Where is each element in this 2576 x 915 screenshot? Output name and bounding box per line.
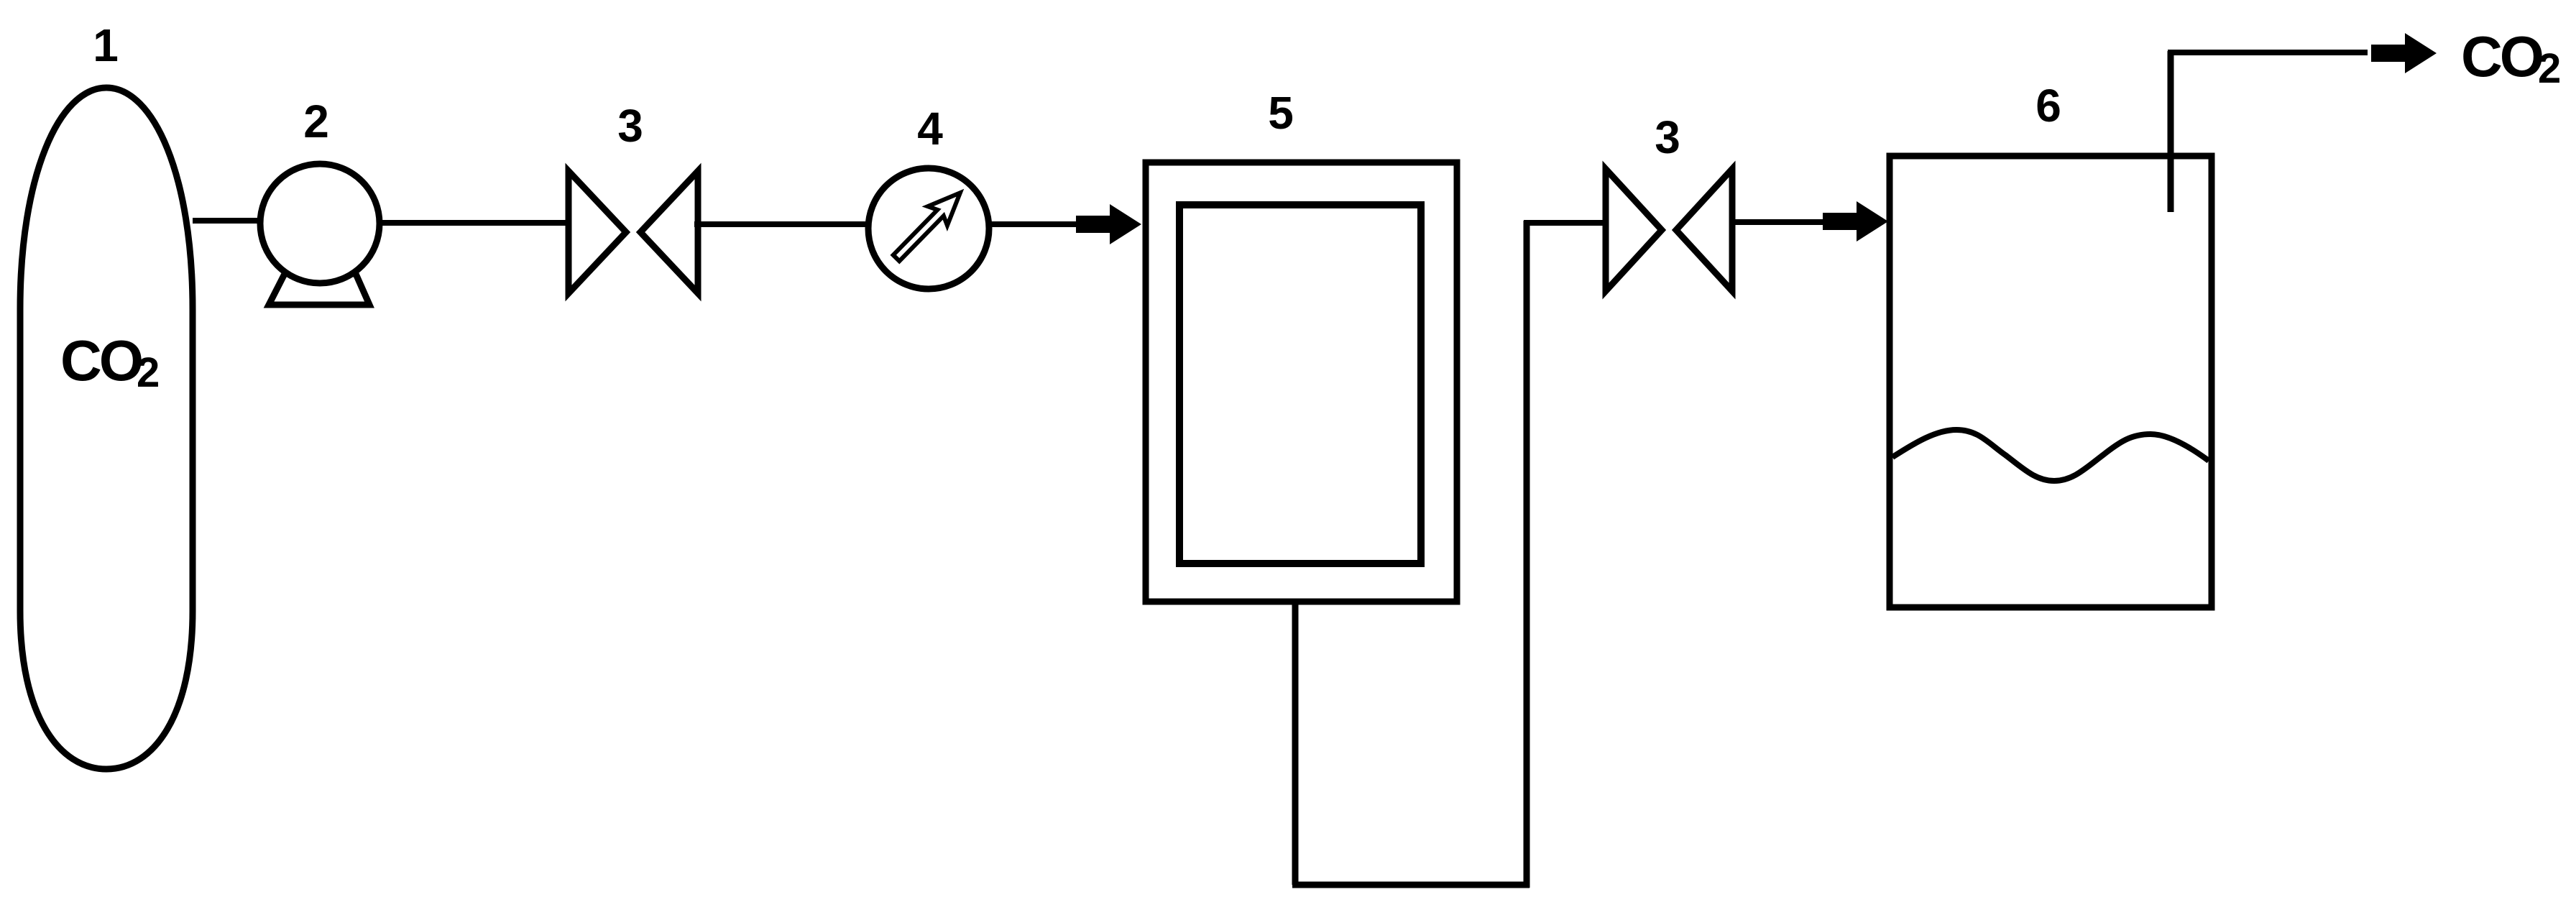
separator 6 rectangle [1890,156,2212,607]
flow arrow into vessel 5 [1076,204,1141,244]
svg-text:4: 4 [917,103,943,155]
pipe from vessel 5 bottom down [1292,604,1299,885]
svg-text:CO: CO [2461,24,2542,88]
valve 3b right triangle [1676,169,1732,291]
vessel 5 outer rectangle [1146,162,1457,602]
pressure gauge 4 needle [886,183,970,267]
pressure gauge 4 circle [868,168,989,289]
vessel 5 inner rectangle [1179,205,1421,564]
dip tube inside separator 6 [2168,51,2174,212]
svg-text:CO: CO [60,328,142,392]
pipe bottom horizontal [1292,882,1529,888]
svg-text:3: 3 [617,100,643,152]
svg-text:5: 5 [1268,87,1294,139]
liquid level wave in separator 6 [1892,430,2209,481]
CO2 cylinder tank 1 [20,88,193,769]
wire valve 3b to flow arrow 2 [1729,219,1826,225]
pipe top horizontal to valve 3b [1524,220,1606,226]
svg-text:2: 2 [2538,45,2561,92]
flow arrow into separator 6 [1823,201,1888,242]
pipe right vertical up [1524,221,1530,888]
valve 3b left triangle [1606,169,1662,291]
wire gauge to flow arrow 1 [989,221,1078,227]
wire cylinder to pump [193,218,264,224]
svg-text:2: 2 [303,96,329,147]
flow arrow CO2 out [2371,33,2437,73]
pump U2 circle [260,164,379,283]
svg-text:2: 2 [137,349,160,396]
valve 3a right triangle [640,171,698,293]
pump U2 base trapezoid [269,274,369,305]
svg-text:3: 3 [1655,111,1680,163]
wire pump to valve 3a [379,220,569,226]
outlet pipe horizontal [2168,50,2368,55]
valve 3a left triangle [569,171,626,293]
svg-text:1: 1 [93,19,119,71]
wire valve 3a to gauge 4 [694,221,870,227]
svg-text:6: 6 [2035,80,2061,132]
